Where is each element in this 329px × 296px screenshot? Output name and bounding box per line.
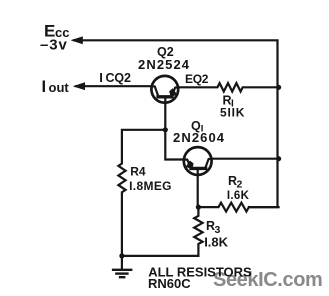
svg-text:R4: R4 bbox=[130, 164, 146, 178]
svg-text:EQ2: EQ2 bbox=[185, 72, 209, 86]
svg-text:I.8K: I.8K bbox=[204, 234, 228, 249]
svg-text:2N2604: 2N2604 bbox=[173, 130, 225, 145]
svg-text:CQ2: CQ2 bbox=[106, 71, 132, 85]
svg-text:I: I bbox=[42, 78, 47, 96]
svg-text:2N2524: 2N2524 bbox=[138, 57, 190, 72]
svg-text:I.6K: I.6K bbox=[227, 190, 250, 202]
svg-text:2: 2 bbox=[237, 179, 243, 191]
svg-text:I.8MEG: I.8MEG bbox=[129, 179, 172, 193]
svg-text:–3v: –3v bbox=[40, 37, 68, 54]
svg-text:RN60C: RN60C bbox=[148, 276, 191, 291]
svg-text:out: out bbox=[49, 80, 70, 95]
svg-text:5IIK: 5IIK bbox=[220, 106, 245, 120]
svg-text:I: I bbox=[99, 70, 103, 85]
